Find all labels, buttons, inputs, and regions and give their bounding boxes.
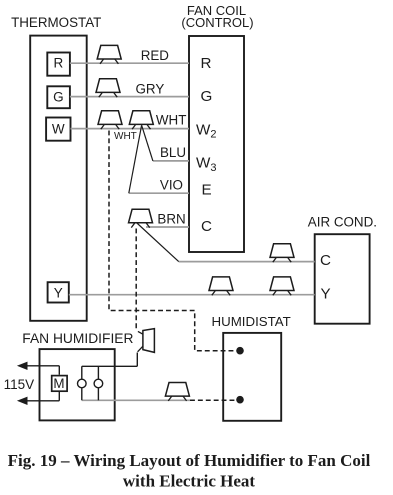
wire nut on G wire: [96, 79, 120, 93]
svg-text:C: C: [320, 252, 331, 269]
dashed wire from BRN nut down to sideways nut: [135, 229, 137, 331]
svg-text:G: G: [201, 88, 213, 105]
svg-text:RED: RED: [141, 48, 170, 63]
svg-text:W3: W3: [196, 155, 216, 174]
svg-text:Fig. 19 – Wiring Layout of Hum: Fig. 19 – Wiring Layout of Humidifier to…: [8, 451, 371, 470]
thermostat box: [30, 36, 86, 321]
svg-text:Y: Y: [321, 286, 331, 303]
svg-text:AIR COND.: AIR COND.: [308, 214, 377, 229]
splice diagonal BRN nut to air cond C wire: [136, 222, 179, 262]
wire Y to air cond: [69, 294, 315, 296]
wire nut on humidifier lower wire: [165, 383, 189, 397]
wire R (red): [70, 62, 189, 64]
svg-text:E: E: [202, 182, 212, 199]
svg-text:THERMOSTAT: THERMOSTAT: [11, 15, 101, 30]
svg-text:R: R: [54, 56, 64, 71]
svg-text:GRY: GRY: [136, 82, 165, 97]
terminal Y: [48, 282, 69, 302]
dashed wire from WHT nut down: [109, 131, 236, 351]
terminal G: [47, 86, 70, 108]
wire BRN to C: [146, 226, 189, 228]
115V supply line lower: [26, 400, 60, 402]
svg-text:VIO: VIO: [160, 177, 183, 192]
svg-text:G: G: [53, 90, 64, 105]
riser wire to sideways wire nut: [136, 353, 138, 367]
terminal W: [46, 118, 70, 141]
wire nut WHT right: [129, 111, 153, 125]
svg-text:WHT: WHT: [114, 131, 137, 142]
humidifier terminal circle left: [81, 366, 83, 400]
svg-text:with Electric Heat: with Electric Heat: [123, 471, 256, 490]
svg-text:BRN: BRN: [157, 212, 185, 227]
svg-text:(CONTROL): (CONTROL): [181, 15, 253, 30]
splice diagonal WHT nut to BLU wire: [142, 125, 153, 161]
wire nut BRN: [129, 209, 153, 223]
svg-text:HUMIDISTAT: HUMIDISTAT: [212, 314, 291, 329]
svg-text:FAN HUMIDIFIER: FAN HUMIDIFIER: [22, 331, 133, 346]
wire nut on R wire: [97, 45, 121, 59]
humidifier terminal circle right: [97, 366, 99, 400]
115V supply line upper: [26, 365, 60, 367]
svg-text:C: C: [201, 218, 212, 235]
svg-text:Y: Y: [54, 285, 63, 300]
splice diagonal WHT nut to VIO wire: [129, 125, 142, 193]
svg-text:W: W: [52, 122, 65, 137]
motor M box: [52, 376, 67, 392]
sideways wire nut (points left): [143, 329, 155, 353]
wire nut on Y wire left: [209, 277, 233, 291]
humidistat terminal dot upper: [236, 347, 244, 355]
wire to air cond C: [179, 261, 315, 263]
wire nut WHT left: [98, 111, 122, 125]
humidifier terminal rail lower: [82, 399, 190, 401]
wire G (gray): [70, 96, 189, 98]
svg-text:M: M: [53, 376, 64, 391]
air conditioner box: [315, 234, 370, 324]
humidifier terminal rail upper: [82, 365, 138, 367]
svg-text:BLU: BLU: [160, 145, 186, 160]
svg-text:W2: W2: [196, 121, 216, 140]
motor vertical wire: [58, 366, 60, 401]
wire nut on Y wire right: [270, 277, 294, 291]
fan humidifier box: [40, 349, 115, 420]
dashed wire from bottom nut to humidistat: [190, 399, 236, 401]
humidistat terminal dot lower: [236, 396, 244, 404]
svg-text:R: R: [201, 55, 212, 72]
svg-text:115V: 115V: [4, 377, 35, 392]
humidistat box: [223, 333, 281, 421]
wire BLU to W3: [153, 160, 189, 162]
wire W (white): [71, 128, 190, 130]
wire VIO to E: [129, 192, 189, 194]
fan coil control box: [189, 36, 244, 252]
terminal R: [47, 53, 70, 76]
svg-text:WHT: WHT: [156, 112, 187, 127]
wire nut on air cond C wire: [270, 244, 294, 258]
